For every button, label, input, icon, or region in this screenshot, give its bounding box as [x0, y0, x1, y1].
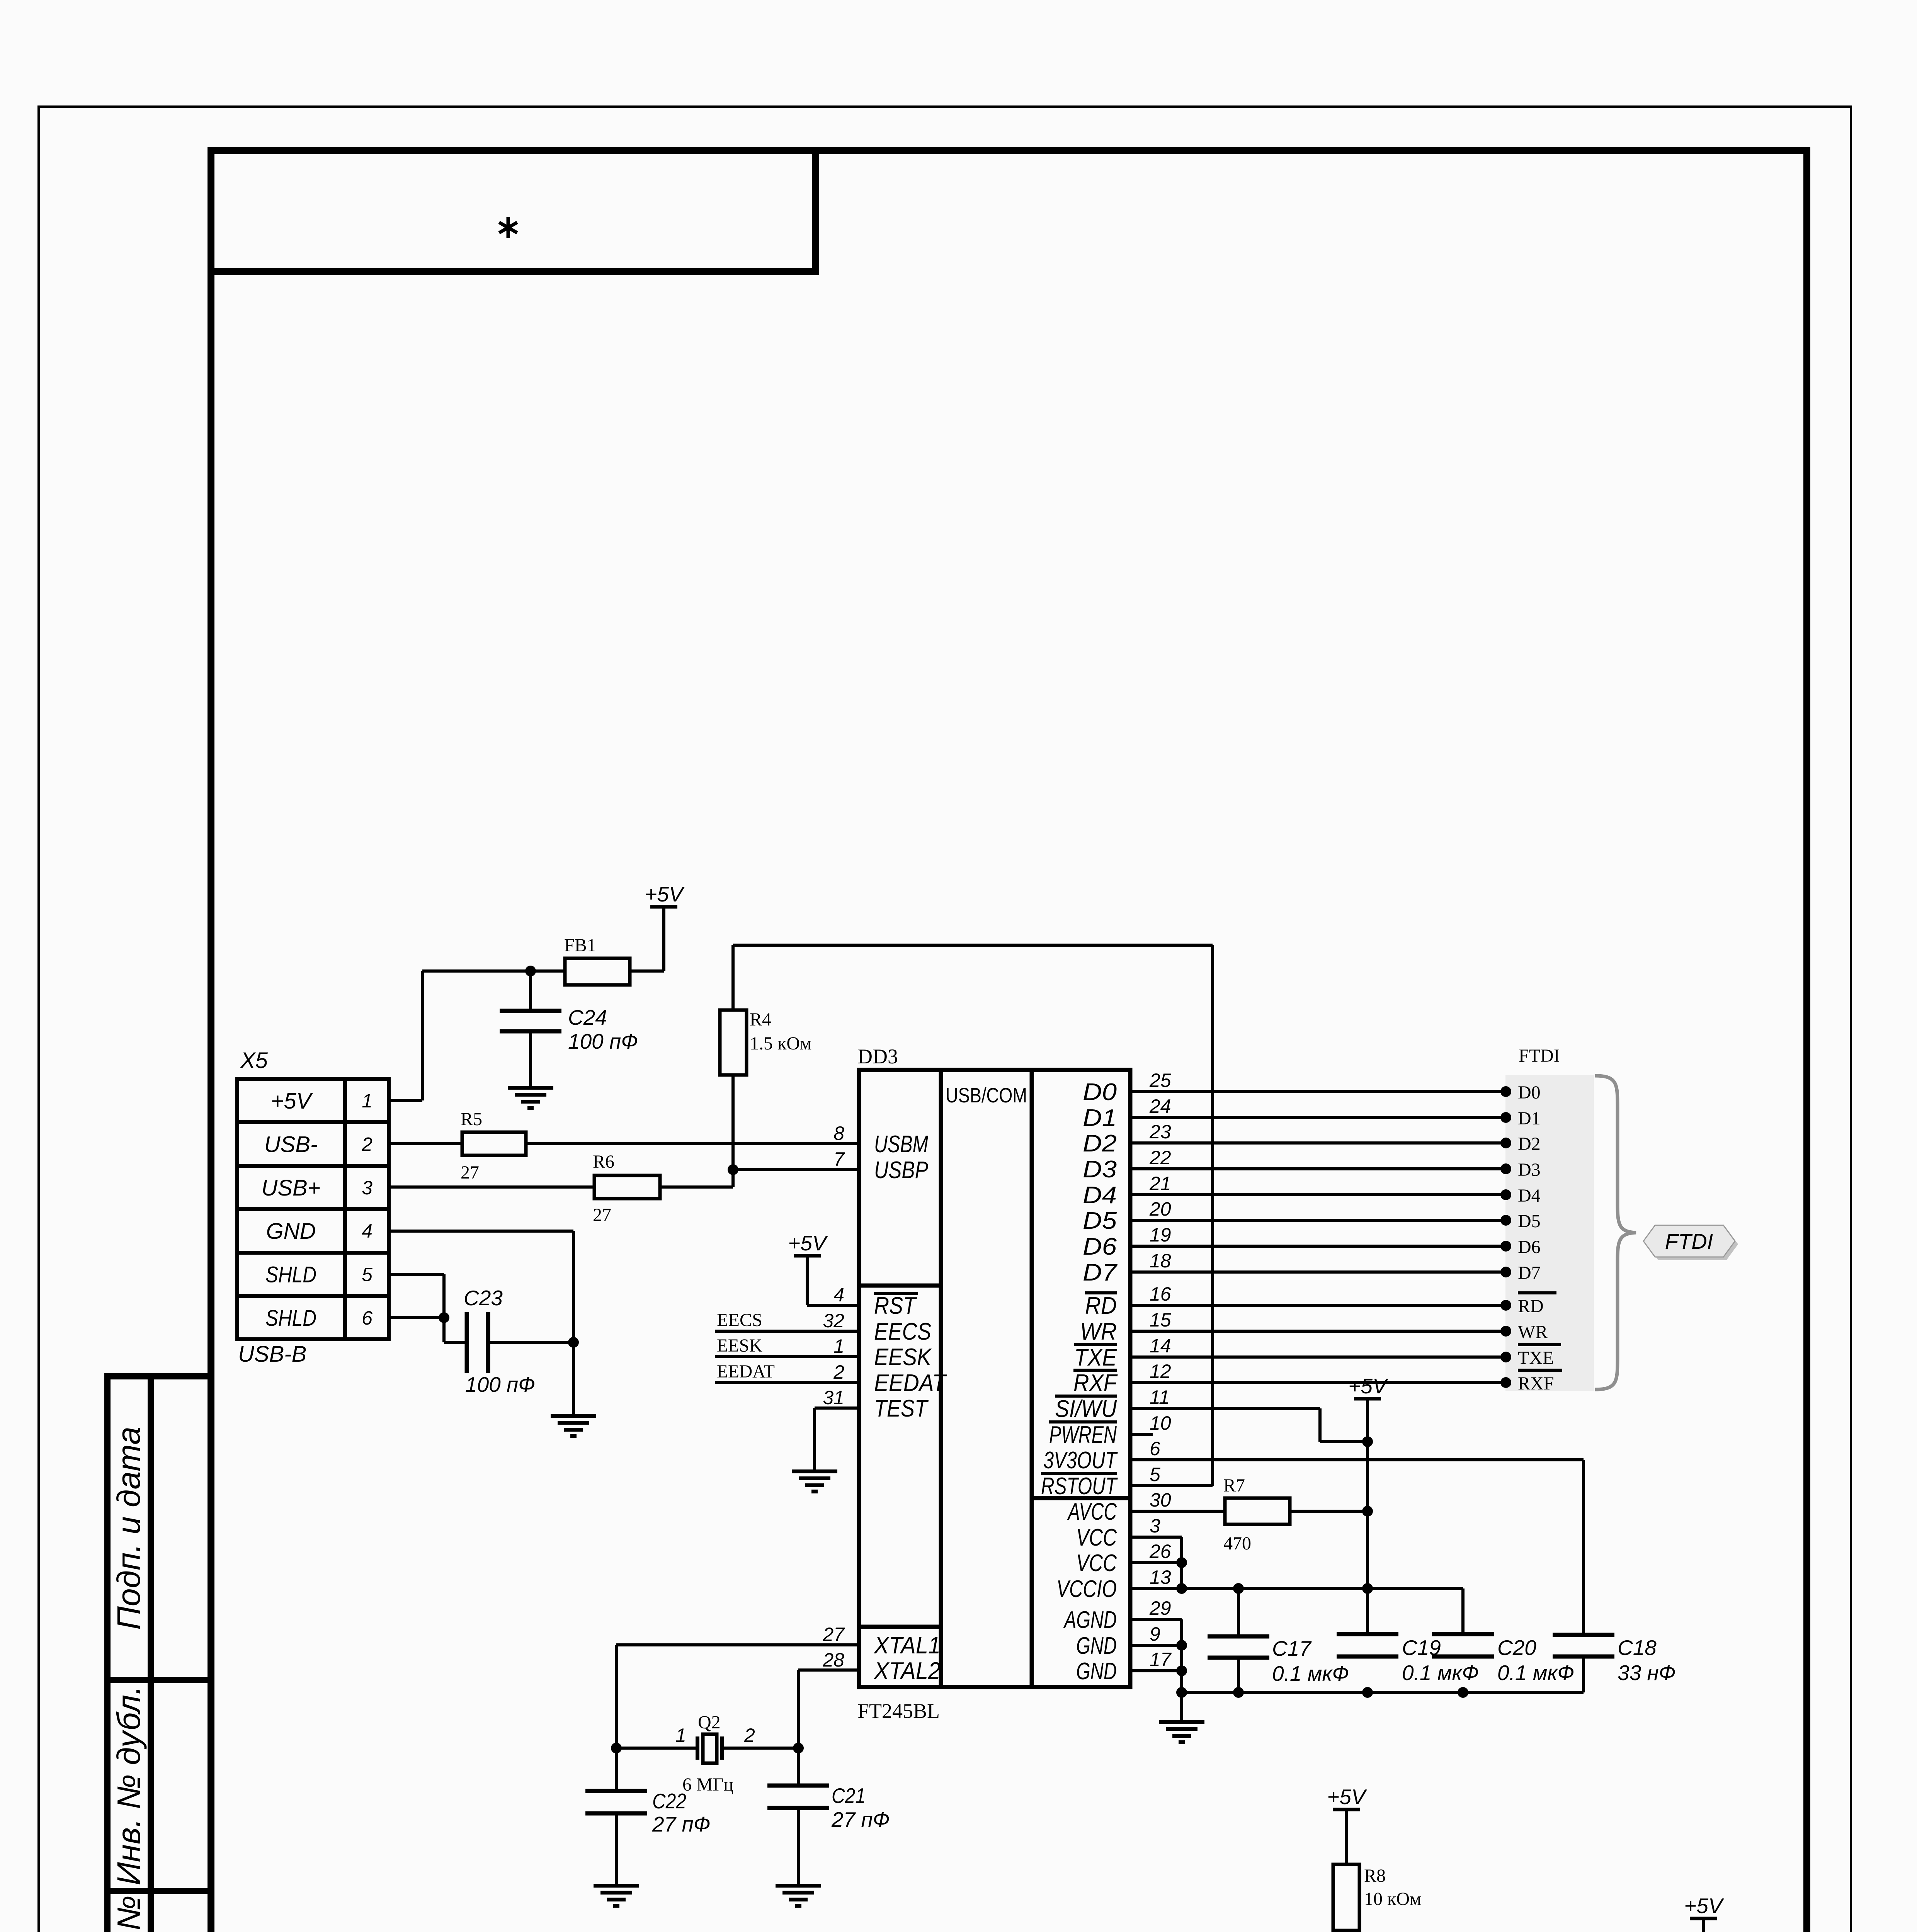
svg-text:D5: D5: [1083, 1207, 1117, 1234]
svg-text:470: 470: [1223, 1533, 1251, 1554]
svg-text:19: 19: [1150, 1224, 1171, 1246]
svg-text:13: 13: [1150, 1566, 1171, 1588]
svg-text:PWREN: PWREN: [1049, 1422, 1117, 1448]
svg-text:D3: D3: [1083, 1156, 1117, 1183]
svg-text:R4: R4: [750, 1009, 771, 1030]
svg-text:GND: GND: [1076, 1658, 1117, 1685]
svg-text:D4: D4: [1083, 1182, 1117, 1209]
svg-text:1: 1: [833, 1335, 844, 1357]
svg-text:Инв. № дубл.: Инв. № дубл.: [111, 1686, 147, 1886]
svg-text:D5: D5: [1518, 1211, 1541, 1231]
svg-text:+5V: +5V: [645, 882, 685, 906]
svg-text:EEDAT: EEDAT: [874, 1370, 947, 1396]
svg-text:+5V: +5V: [1684, 1894, 1724, 1918]
svg-text:D1: D1: [1518, 1108, 1541, 1129]
svg-text:D1: D1: [1083, 1105, 1117, 1131]
svg-text:D6: D6: [1083, 1233, 1117, 1260]
svg-text:WR: WR: [1518, 1322, 1548, 1342]
svg-text:AVCC: AVCC: [1067, 1498, 1117, 1525]
svg-text:TEST: TEST: [874, 1395, 929, 1422]
svg-text:2: 2: [833, 1361, 844, 1383]
svg-text:5: 5: [362, 1264, 373, 1286]
svg-text:20: 20: [1149, 1198, 1171, 1220]
svg-text:EECS: EECS: [874, 1318, 931, 1345]
svg-text:32: 32: [823, 1310, 844, 1332]
svg-text:DD4: DD4: [1408, 1930, 1449, 1932]
svg-text:7: 7: [833, 1148, 845, 1170]
svg-text:USBM: USBM: [874, 1131, 928, 1158]
svg-text:D4: D4: [1518, 1185, 1541, 1206]
svg-text:SHLD: SHLD: [265, 1306, 316, 1331]
svg-text:TXE: TXE: [1518, 1348, 1554, 1368]
svg-text:27: 27: [593, 1205, 611, 1225]
svg-text:9: 9: [1150, 1623, 1160, 1645]
svg-text:C23: C23: [464, 1286, 503, 1310]
svg-text:FTDI: FTDI: [1665, 1229, 1713, 1253]
svg-text:VCC: VCC: [1076, 1550, 1117, 1577]
svg-text:D3: D3: [1518, 1160, 1541, 1180]
svg-text:FTDI: FTDI: [1519, 1046, 1560, 1066]
svg-text:16: 16: [1150, 1283, 1171, 1305]
svg-text:1.5 кОм: 1.5 кОм: [750, 1033, 811, 1054]
svg-text:GND: GND: [1076, 1633, 1117, 1659]
svg-text:11: 11: [1150, 1386, 1170, 1408]
svg-text:RST: RST: [874, 1293, 917, 1319]
svg-text:29: 29: [1149, 1597, 1171, 1619]
svg-text:AGND: AGND: [1063, 1607, 1117, 1633]
svg-text:17: 17: [1150, 1649, 1172, 1670]
svg-text:D7: D7: [1083, 1259, 1118, 1286]
svg-text:+5V: +5V: [271, 1088, 313, 1114]
svg-text:RXF: RXF: [1073, 1370, 1118, 1396]
svg-text:D0: D0: [1083, 1079, 1117, 1105]
svg-text:USB-: USB-: [264, 1132, 318, 1157]
svg-text:27: 27: [822, 1624, 845, 1645]
svg-text:C20: C20: [1497, 1636, 1536, 1660]
svg-text:EESK: EESK: [717, 1335, 762, 1356]
svg-text:10 кОм: 10 кОм: [1364, 1889, 1421, 1909]
svg-text:18: 18: [1150, 1250, 1171, 1272]
svg-text:1: 1: [675, 1725, 686, 1746]
svg-text:USB+: USB+: [261, 1175, 320, 1201]
svg-text:5: 5: [1150, 1464, 1160, 1485]
svg-text:EEDAT: EEDAT: [717, 1361, 775, 1382]
svg-text:RSTOUT: RSTOUT: [1041, 1473, 1118, 1500]
svg-text:27 пФ: 27 пФ: [831, 1808, 890, 1832]
svg-text:21: 21: [1149, 1173, 1171, 1194]
svg-text:27 пФ: 27 пФ: [652, 1812, 710, 1836]
svg-text:GND: GND: [266, 1219, 316, 1244]
svg-text:Взам. инв. №: Взам. инв. №: [111, 1895, 147, 1932]
svg-text:27: 27: [461, 1162, 479, 1183]
svg-text:RXF: RXF: [1518, 1373, 1554, 1394]
svg-text:23: 23: [1149, 1121, 1171, 1143]
svg-text:VCCIO: VCCIO: [1056, 1576, 1117, 1602]
svg-text:VCC: VCC: [1076, 1524, 1117, 1551]
svg-text:EESK: EESK: [874, 1344, 932, 1371]
svg-text:2: 2: [744, 1725, 755, 1746]
svg-text:22: 22: [1149, 1147, 1171, 1168]
svg-text:6: 6: [1150, 1438, 1160, 1459]
svg-text:4: 4: [362, 1220, 373, 1242]
svg-text:28: 28: [822, 1649, 844, 1671]
svg-text:14: 14: [1150, 1335, 1171, 1357]
svg-text:24: 24: [1149, 1095, 1171, 1117]
svg-text:1: 1: [362, 1090, 373, 1112]
svg-text:12: 12: [1150, 1361, 1171, 1382]
svg-text:2: 2: [361, 1133, 373, 1155]
svg-text:25: 25: [1149, 1070, 1171, 1091]
svg-text:33 нФ: 33 нФ: [1618, 1661, 1675, 1685]
svg-text:D6: D6: [1518, 1237, 1541, 1257]
svg-text:X5: X5: [240, 1048, 268, 1073]
svg-text:6 МГц: 6 МГц: [682, 1774, 733, 1795]
svg-text:8: 8: [833, 1122, 844, 1144]
svg-text:30: 30: [1150, 1489, 1171, 1511]
svg-text:XTAL2: XTAL2: [873, 1658, 941, 1684]
svg-text:RD: RD: [1518, 1296, 1544, 1316]
svg-text:WR: WR: [1080, 1318, 1117, 1345]
svg-text:RD: RD: [1085, 1293, 1117, 1319]
svg-text:+5V: +5V: [1327, 1785, 1367, 1809]
svg-text:SHLD: SHLD: [265, 1262, 316, 1287]
svg-text:31: 31: [823, 1387, 844, 1408]
svg-text:C17: C17: [1272, 1636, 1312, 1660]
svg-text:R7: R7: [1223, 1475, 1245, 1496]
svg-text:USBP: USBP: [874, 1157, 928, 1184]
svg-text:D2: D2: [1083, 1130, 1117, 1157]
svg-text:D0: D0: [1518, 1082, 1541, 1103]
svg-text:SI/WU: SI/WU: [1055, 1396, 1117, 1422]
svg-text:R5: R5: [461, 1109, 482, 1129]
svg-text:FT245BL: FT245BL: [857, 1699, 940, 1723]
svg-text:3V3OUT: 3V3OUT: [1043, 1447, 1118, 1474]
svg-text:0.1 мкФ: 0.1 мкФ: [1402, 1661, 1479, 1685]
svg-text:USB/COM: USB/COM: [946, 1084, 1027, 1107]
svg-text:6: 6: [362, 1307, 373, 1329]
svg-text:Q2: Q2: [698, 1712, 721, 1733]
svg-text:R8: R8: [1364, 1866, 1386, 1886]
svg-text:C19: C19: [1402, 1636, 1441, 1660]
svg-text:3: 3: [362, 1177, 373, 1199]
svg-text:3: 3: [1150, 1515, 1160, 1537]
svg-text:100 пФ: 100 пФ: [465, 1372, 535, 1396]
svg-text:26: 26: [1149, 1541, 1171, 1562]
svg-text:Подп. и дата: Подп. и дата: [111, 1427, 147, 1630]
svg-text:DD3: DD3: [857, 1045, 898, 1068]
svg-text:FB1: FB1: [564, 935, 596, 956]
svg-text:4: 4: [833, 1284, 844, 1306]
svg-text:100 пФ: 100 пФ: [568, 1029, 638, 1053]
svg-text:C24: C24: [568, 1005, 607, 1029]
svg-text:0.1 мкФ: 0.1 мкФ: [1272, 1662, 1349, 1685]
svg-text:10: 10: [1150, 1412, 1171, 1434]
svg-text:+5V: +5V: [788, 1231, 828, 1255]
svg-text:D7: D7: [1518, 1263, 1541, 1283]
svg-text:C22: C22: [652, 1789, 686, 1813]
svg-text:EECS: EECS: [717, 1310, 762, 1330]
svg-text:+5V: +5V: [1348, 1374, 1388, 1398]
svg-text:C21: C21: [832, 1784, 866, 1808]
svg-text:C18: C18: [1618, 1636, 1657, 1660]
svg-text:D2: D2: [1518, 1134, 1541, 1154]
svg-text:0.1 мкФ: 0.1 мкФ: [1497, 1661, 1574, 1685]
svg-text:XTAL1: XTAL1: [873, 1632, 941, 1659]
svg-text:15: 15: [1150, 1309, 1171, 1331]
svg-text:TXE: TXE: [1074, 1344, 1117, 1371]
svg-text:USB-B: USB-B: [238, 1342, 306, 1367]
svg-text:R6: R6: [593, 1151, 614, 1172]
